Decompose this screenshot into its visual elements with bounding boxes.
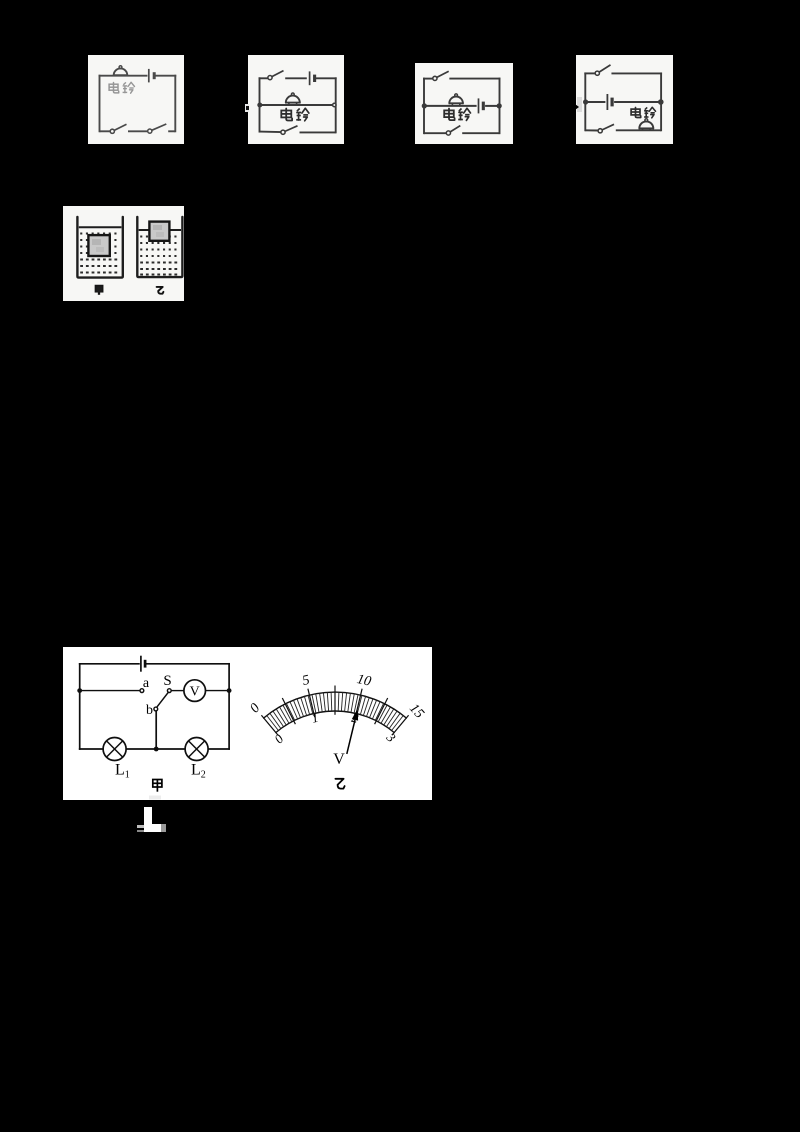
beaker 甲 (left vessel) [77,217,122,278]
outer scale label 0 [247,701,263,716]
electric bell (on top wire) [113,66,128,76]
svg-text:V: V [333,751,345,768]
label L2 [191,762,206,781]
figure: two beakers with block submerged (甲) and floating (乙) [63,206,184,301]
electric bell (middle wire) [285,93,301,105]
stray white scan fragment (inverted L2) [144,807,152,832]
dotted liquid (left beaker) [80,233,117,274]
svg-text:V: V [190,685,200,700]
bottom wire middle segment [128,130,148,132]
meter unit label V [333,751,345,768]
figure option A: bell with two switches in series [88,55,184,144]
node dot right (middle wire) [227,688,232,693]
figure option B: bell on middle branch, switch top and bottom [248,55,344,144]
bottom wire right segment [616,129,661,131]
label 电铃 [281,108,309,121]
svg-text:5: 5 [301,673,311,689]
wire loop: option-D circuit outline [585,73,661,130]
electric bell (middle wire) [449,94,464,106]
battery (top wire) [141,656,145,672]
switch 1 (open, bottom wire) [110,124,126,133]
wire from b down to bottom node [155,711,157,749]
switch S pivot [167,689,171,693]
switch (top wire, open) [433,71,449,80]
floating block (right beaker) [149,222,169,241]
bottom wire right segment [462,132,499,134]
middle branch wire with junction dots [257,103,336,108]
inner scale label 0 [271,731,287,747]
wire loop: option-B circuit outline [260,78,336,132]
svg-text:0: 0 [247,701,263,716]
water surface line (right beaker) [139,229,181,231]
bottom wire left segment [585,129,598,131]
node dot on bottom wire [154,747,159,752]
node dot left (middle wire) [77,688,82,693]
middle wire to contact a [80,690,140,692]
meter needle (pointing at 10 / 2) [347,709,358,754]
bottom wire left segment [260,131,282,134]
bottom wire right segment [168,130,175,132]
outer scale label 15 [406,701,427,721]
circuit outline (figure 甲) [80,664,229,749]
battery (middle wire) [607,94,612,110]
middle branch wire with junction dots [422,103,502,108]
label 电铃 [631,107,655,118]
figure option D: bell on bottom wire, battery on middle branch [576,55,673,144]
switch (top wire, open) [595,65,610,75]
caption 甲 [153,780,162,792]
meter major ticks (0,2.5,5,7.5,10,12.5,15) [261,686,408,736]
outer scale label 5 [301,673,311,689]
inner scale label 3 [383,729,399,745]
wire voltmeter to right side [206,690,230,692]
battery (top wire) [310,71,315,85]
label S [163,673,171,689]
outer scale label 10 [355,672,372,690]
meter inner arc [276,711,394,732]
label 电铃 (faded) [109,82,134,93]
inner scale label 2 [350,710,360,726]
dotted liquid (right beaker) [140,236,177,276]
switch (top wire, open) [268,71,284,80]
svg-text:b: b [146,703,153,718]
bottom wire left segment [424,132,446,134]
stray scan mark left of option B [245,104,249,113]
label b [146,703,153,718]
switch blade S to b [157,692,169,707]
svg-text:0: 0 [271,731,287,747]
svg-text:15: 15 [406,701,427,721]
battery (middle wire) [479,98,484,113]
bottom wire right segment [300,131,336,133]
bottom wire segments [80,748,229,750]
switch (bottom wire, open) [281,126,298,134]
inner scale label 1 [310,710,320,726]
svg-text:10: 10 [355,672,372,690]
stray scan mark left of option D [577,97,582,112]
svg-text:L2: L2 [191,762,206,781]
label L1 [115,762,130,781]
water surface line (left beaker) [79,226,122,228]
middle branch wire with junction dots [583,99,664,105]
label 甲 (left, heavy ink) [96,286,103,295]
wire loop: option-C circuit outline [424,79,500,134]
lamp L2 [185,738,208,761]
submerged block (left beaker) [88,235,109,256]
beaker 乙 (right vessel) [137,217,182,277]
voltmeter V [184,680,206,702]
svg-text:a: a [143,676,150,691]
electric bell (bottom wire) [639,119,655,131]
label 乙 (right) [157,287,164,294]
caption 乙 [335,779,344,789]
meter outer arc [264,692,407,718]
switch (bottom wire, open) [446,126,460,136]
wire S to voltmeter [171,690,184,692]
meter scale hatch ticks [264,692,407,733]
faint scan smudge at bottom [149,796,161,800]
label a [143,676,150,691]
contact b (open terminal) [154,707,158,711]
lamp L1 [103,738,126,761]
label 电铃 [444,108,470,120]
switch (bottom wire, open) [598,124,614,133]
contact a (open terminal) [140,689,144,693]
svg-text:S: S [163,673,171,689]
switch 2 (open, bottom wire) [148,124,167,133]
battery (top wire) [149,69,154,83]
svg-text:L1: L1 [115,762,130,781]
figure: circuit 甲 with lamps and voltmeter, meter face 乙 [63,647,432,800]
wire loop: option-A circuit outline [100,76,176,132]
bottom wire left segment [100,130,111,132]
figure option C: bell and battery on middle branch [415,63,513,144]
svg-text:3: 3 [383,729,399,745]
